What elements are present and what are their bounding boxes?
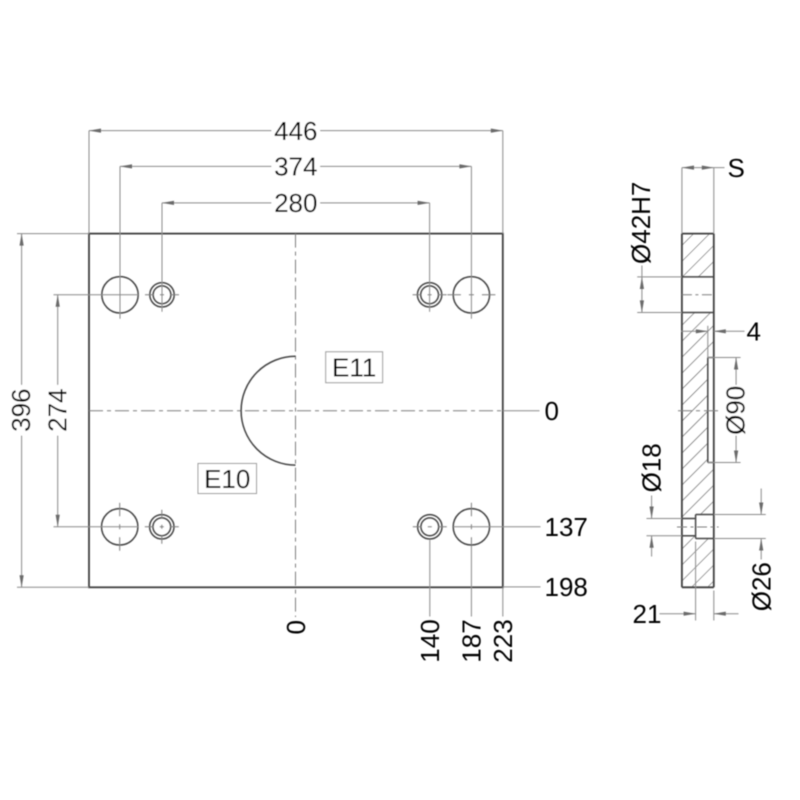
dimension 446	[89, 130, 503, 132]
svg-text:137: 137	[545, 512, 588, 542]
svg-text:4: 4	[747, 317, 761, 347]
crosshair top-right big	[447, 294, 495, 296]
crosshair bottom-right small horizontal	[413, 526, 447, 528]
dimension 4	[681, 330, 708, 332]
hole 42 centerline	[682, 294, 714, 296]
svg-text:280: 280	[274, 188, 317, 218]
label 137 leader	[453, 526, 540, 528]
svg-text:0: 0	[281, 620, 311, 634]
label 187 leader	[470, 546, 472, 617]
svg-text:223: 223	[488, 619, 518, 662]
extension line 274 bottom	[54, 526, 139, 528]
hole top-left big	[102, 277, 138, 313]
hole 18 bottom edge	[682, 535, 696, 537]
side view bottom edge	[682, 586, 714, 588]
extension line 280 right	[429, 203, 431, 312]
svg-text:Ø90: Ø90	[720, 386, 750, 435]
crosshair bottom-right big vertical	[470, 503, 472, 545]
recess 90 top step	[708, 357, 714, 359]
extension line 446 right	[502, 131, 504, 234]
hole 42 bottom edge	[682, 312, 714, 314]
svg-text:396: 396	[6, 389, 36, 432]
hole 18 top edge	[682, 518, 696, 520]
side view left edge	[681, 234, 683, 588]
plate front view outline	[89, 234, 503, 588]
counterbore 26 top edge	[696, 514, 714, 516]
dimension 396	[21, 234, 23, 588]
label 198 leader	[503, 586, 541, 588]
hole bottom-right big	[453, 509, 489, 545]
hole top-right big	[453, 277, 489, 313]
extension line 374 left	[119, 166, 121, 318]
dimension S	[682, 167, 725, 169]
svg-text:S: S	[728, 153, 745, 183]
svg-text:21: 21	[633, 599, 662, 629]
hole bottom-left big	[102, 509, 138, 545]
dimension 21	[660, 613, 696, 615]
extension line 280 left	[161, 203, 163, 312]
extension line 396 top	[17, 233, 89, 235]
dimension 374	[120, 165, 471, 167]
recess 90 bottom step	[708, 462, 714, 464]
svg-text:E10: E10	[204, 464, 250, 494]
label 0 right leader	[503, 410, 540, 412]
dimension O18	[651, 496, 653, 519]
extension line 446 left	[88, 131, 90, 234]
extension line 274 top	[54, 294, 139, 296]
hole bottom-right small (double ring)	[418, 515, 442, 539]
horizontal centerline of plate	[89, 410, 503, 412]
semicircle recess E90 front view	[241, 356, 295, 465]
svg-text:Ø42H7: Ø42H7	[626, 182, 656, 264]
svg-text:Ø18: Ø18	[637, 443, 667, 492]
svg-text:446: 446	[274, 116, 317, 146]
svg-text:198: 198	[545, 572, 588, 602]
dimension 280	[162, 202, 430, 204]
hole top-right small (double ring)	[417, 283, 441, 307]
svg-text:Ø26: Ø26	[746, 562, 776, 611]
extension line 396 bottom	[17, 586, 89, 588]
label 140 leader	[429, 540, 431, 617]
crosshair bottom-left big vertical	[119, 503, 121, 551]
svg-text:E11: E11	[332, 353, 376, 383]
side view top edge	[682, 233, 714, 235]
counterbore 26 bottom edge	[696, 538, 714, 540]
svg-text:140: 140	[415, 619, 445, 662]
svg-text:374: 374	[274, 152, 317, 182]
dimension 274	[57, 295, 59, 527]
label box E10	[198, 464, 257, 494]
dimension O26	[760, 489, 762, 515]
svg-text:187: 187	[457, 619, 487, 662]
main centerline through side view	[678, 410, 718, 412]
extension line 374 right	[470, 166, 472, 318]
hole 18 centerline	[677, 526, 719, 528]
hole 42 top edge	[682, 276, 714, 278]
hole top-left small (double ring)	[150, 283, 174, 307]
side view right edge	[713, 234, 715, 588]
crosshair top-right small	[413, 294, 447, 296]
vertical centerline of plate	[295, 234, 297, 617]
svg-text:274: 274	[43, 389, 73, 432]
dimension O90	[735, 358, 737, 463]
crosshair bottom-left small	[145, 526, 179, 528]
recess 90 bottom wall	[707, 358, 709, 463]
label box E11	[326, 352, 383, 383]
hatch areas	[682, 234, 714, 588]
counterbore 26 left wall	[695, 515, 697, 539]
hole bottom-left small (double ring)	[150, 515, 174, 539]
crosshair top-left small	[145, 294, 179, 296]
label 223 leader	[502, 587, 504, 616]
svg-text:0: 0	[545, 396, 559, 426]
dimension O42H7	[641, 266, 643, 313]
